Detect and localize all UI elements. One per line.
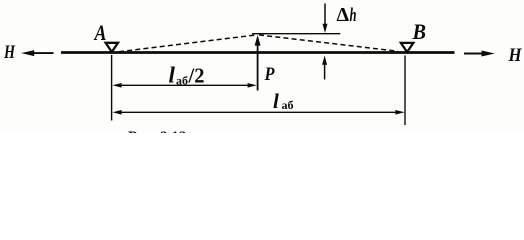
label dh [337,4,357,26]
svg-text:l: l [273,89,279,113]
dimension arrow dh down [323,4,328,34]
force arrow H right [464,51,495,57]
svg-text:A: A [93,20,107,45]
svg-text:/2: /2 [188,64,205,88]
svg-text:H: H [3,42,16,63]
svg-text:B: B [412,19,426,44]
svg-text:аб: аб [176,74,188,88]
support B triangle [401,43,413,52]
svg-text:h: h [350,5,357,26]
dashed cable left branch [119,35,255,52]
label lab [273,89,294,113]
svg-text:l: l [169,63,176,88]
svg-text:аб: аб [282,98,294,112]
extension line below B [404,56,406,126]
svg-text:Рис. 2.12: Рис. 2.12 [128,129,186,133]
extension line below A [111,55,113,121]
dimension line lab/2 [112,83,256,88]
dashed cable right branch [259,35,398,51]
support A triangle [106,43,118,52]
dimension line lab [112,110,404,115]
peak reference line [252,33,340,35]
force arrow P [255,35,261,91]
svg-text:Δ: Δ [337,4,350,26]
dimension arrow dh up [322,56,327,80]
svg-text:H: H [508,45,523,66]
force arrow H left [21,50,53,56]
wire chord line A-B [61,51,455,54]
label lab/2 [169,63,205,88]
svg-text:P: P [264,64,275,85]
